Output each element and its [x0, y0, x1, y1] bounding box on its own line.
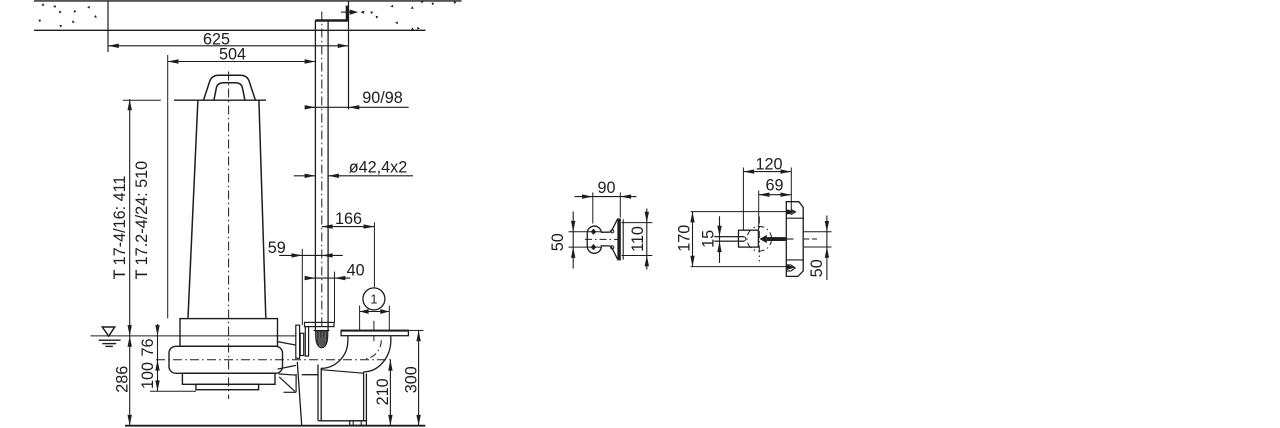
detail A plate right line [622, 219, 624, 259]
detail B plate inner line top [786, 217, 803, 219]
elbow vertical centerline stub below flange [373, 336, 375, 342]
detail B rail end cap [744, 237, 746, 241]
pump horizontal centerline [156, 359, 392, 361]
detail B rail vertical centerline [758, 217, 760, 262]
dim 90/98 line [305, 106, 409, 108]
detail B dim 50 text [808, 259, 826, 277]
elbow flange plate [341, 330, 408, 335]
dim 59 left extension [301, 249, 303, 325]
dim 59 line [279, 254, 343, 256]
detail B claw bar [767, 237, 786, 241]
pump handle inner [214, 83, 245, 100]
detail A dim 50 text [549, 233, 567, 251]
pedestal left edge [317, 365, 319, 421]
detail A dim 90 extensions [592, 192, 594, 223]
detail A plate bar [617, 218, 620, 260]
detail B plate inner line bottom [786, 259, 803, 261]
balloon flange dim extensions [359, 306, 361, 330]
elbow neck left [347, 336, 349, 342]
dim 166 line [322, 226, 375, 228]
elbow inner bend arc [321, 341, 348, 368]
svg-text:15: 15 [700, 230, 718, 248]
pump vertical centerline [228, 72, 230, 400]
svg-text:ø42,4x2: ø42,4x2 [349, 158, 408, 176]
slab opening left edge [107, 1, 109, 52]
dim 40 right extension [334, 272, 336, 323]
dim 300 text [403, 366, 421, 393]
water level triangle [102, 327, 114, 336]
detail B claw bar tail [786, 238, 794, 240]
dim 286 line [129, 336, 131, 426]
detail B bottom hook slot [786, 264, 791, 266]
discharge nozzle bottom [278, 365, 296, 369]
riser pipe left wall [314, 20, 316, 331]
detail B dim 69 text [765, 177, 783, 195]
svg-text:50: 50 [808, 259, 826, 277]
dim 40 line [305, 277, 350, 279]
pedestal foot inner lines [352, 421, 354, 426]
detail A dim 110 line [646, 209, 648, 270]
dim 300 top extension [409, 329, 424, 331]
detail B dim 50 extensions [803, 231, 831, 233]
pedestal foot top [318, 420, 366, 422]
dim 40 text [347, 261, 365, 279]
elbow outer bend arc [364, 339, 391, 372]
dim pipe diameter line [294, 175, 316, 177]
claw top edge [314, 330, 330, 332]
pedestal left inner edge [320, 368, 322, 420]
svg-text:40: 40 [347, 261, 365, 279]
detail B plate outline [786, 202, 803, 277]
ground line [125, 425, 425, 427]
coupling flange plate 2 [300, 333, 304, 355]
pump suction plate [196, 384, 259, 389]
svg-text:50: 50 [549, 233, 567, 251]
svg-text:90: 90 [597, 179, 615, 197]
dim 625 text [203, 30, 230, 48]
svg-text:120: 120 [755, 156, 782, 174]
slab opening right edge / extension line [348, 1, 350, 110]
pipe top bend horizontal bar [315, 19, 347, 22]
concrete stipple left slab [41, 3, 44, 6]
pedestal sloped top [321, 370, 363, 374]
pump top edge [174, 99, 266, 101]
detail B top hook slot [786, 213, 791, 215]
pipe top bend vertical stub [346, 6, 348, 22]
volute support gusset right edge [295, 374, 297, 392]
dim 625 line [108, 45, 349, 47]
balloon 1 text [370, 292, 377, 307]
dim 76 text [139, 338, 157, 356]
elbow neck right [390, 336, 392, 340]
svg-text:100: 100 [139, 362, 157, 389]
volute support gusset top [278, 374, 296, 375]
pedestal foot rect [350, 421, 367, 426]
svg-text:90/98: 90/98 [362, 89, 403, 107]
riser pipe right wall [327, 22, 329, 331]
detail B rail end lines [714, 236, 744, 238]
riser pipe centerline [321, 12, 323, 348]
dim 210 line [389, 360, 391, 426]
dim 504 text [219, 45, 246, 63]
elbow vertical centerline stub above flange [373, 321, 375, 330]
claw bracket top bar [305, 322, 335, 326]
detail B rail pipe hidden circle [747, 227, 772, 252]
elbow bend centerline arc [364, 340, 382, 359]
detail A bolt hole bottom [611, 246, 614, 249]
detail B dim 15 text [700, 230, 718, 248]
detail A bolt center bottom [591, 244, 597, 250]
dim 166 text [335, 210, 362, 228]
svg-text:110: 110 [629, 226, 647, 252]
detail A dim 50 line [572, 212, 574, 269]
claw cup outline [316, 331, 328, 348]
detail A dim 90 line [575, 196, 637, 198]
dim 504 left extension [167, 55, 169, 318]
pedestal right inner edge [363, 372, 365, 421]
pump motor cone left edge [188, 100, 198, 318]
dim 300 line [418, 330, 420, 425]
svg-text:286: 286 [113, 366, 131, 393]
claw bracket left leg [305, 327, 308, 357]
detail B dim 120 line [743, 171, 791, 173]
svg-text:T 17-4/16: 411: T 17-4/16: 411 [111, 176, 129, 280]
detail B dim 170 line [692, 212, 694, 267]
dim 76-100 line [157, 324, 159, 391]
detail B hook leader bottom [691, 266, 790, 268]
detail B center tail right [803, 238, 817, 240]
ceiling slab bottom edge [34, 29, 426, 31]
detail B dim 15 extensions [715, 236, 744, 238]
dim 100 text [139, 362, 157, 389]
balloon 1 circle [363, 288, 385, 310]
svg-text:59: 59 [268, 239, 286, 257]
pump handle outer [204, 75, 256, 100]
dim pump height top extension [123, 99, 161, 101]
detail A dim 110 text [629, 226, 647, 252]
pedestal top ledge [302, 374, 318, 376]
discharge nozzle top [278, 342, 296, 346]
volute support gusset slant [279, 377, 295, 392]
svg-text:1: 1 [370, 292, 377, 307]
dim 90/98 text [362, 89, 403, 107]
detail B rail square [739, 230, 759, 247]
dim 210 text [374, 378, 392, 405]
pedestal right edge [365, 373, 367, 420]
detail B dim 120 text [755, 156, 782, 174]
dim pump height line [129, 99, 131, 336]
detail A bolt line top [569, 231, 602, 233]
detail B dim 170 text [676, 225, 694, 252]
pump motor cone right edge [259, 100, 266, 318]
pump adapter flange [180, 319, 278, 347]
detail B claw wedge [760, 235, 767, 243]
dim 100 bottom extension [150, 390, 196, 392]
water level line [91, 335, 297, 337]
dim 59 text [268, 239, 286, 257]
svg-text:504: 504 [219, 45, 246, 63]
detail B dim 69 extension [758, 191, 760, 231]
dim text T17-4/16 411 [111, 176, 129, 280]
water level marks [99, 339, 121, 341]
detail A bracket outline [587, 219, 617, 260]
ceiling slab top edge [34, 0, 462, 2]
elbow flange top thick edge [341, 330, 408, 332]
volute support gusset bottom [284, 391, 297, 393]
svg-text:210: 210 [374, 378, 392, 405]
dim pipe diameter text [349, 158, 408, 176]
detail A centerline [585, 238, 620, 240]
detail B dim 15 line [719, 216, 721, 263]
pipe fixation leader arrow [341, 11, 356, 13]
svg-text:T 17.2-4/24: 510: T 17.2-4/24: 510 [133, 161, 151, 280]
detail B dim 120 extensions [742, 168, 744, 231]
detail A bolt hole top [611, 230, 614, 233]
concrete stipple right slab [361, 10, 365, 13]
detail B dim 69 line [759, 194, 792, 196]
dim 166 right extension [373, 222, 375, 287]
pump volute casing [169, 346, 283, 373]
pump base ring [182, 373, 275, 384]
svg-text:76: 76 [139, 338, 157, 356]
svg-text:300: 300 [403, 366, 421, 393]
detail B hook leader top [691, 211, 790, 213]
detail A dim 90 text [597, 179, 615, 197]
detail A bolt center top [591, 229, 597, 235]
svg-text:170: 170 [676, 225, 694, 252]
balloon flange dim arrows [360, 311, 390, 313]
svg-text:166: 166 [335, 210, 362, 228]
dim 286 text [113, 366, 131, 393]
dim 504 line [168, 61, 316, 63]
claw hatch lines [316, 331, 318, 344]
svg-text:69: 69 [765, 177, 783, 195]
detail A bolt line bottom [569, 246, 602, 248]
dim text T17.2-4/24 510 [133, 161, 151, 280]
coupling flange plate 1 [296, 325, 300, 358]
detail A dim 110 extensions [622, 222, 653, 224]
detail B dim 50 line [826, 216, 828, 281]
pedestal front slanted edge [297, 362, 301, 425]
